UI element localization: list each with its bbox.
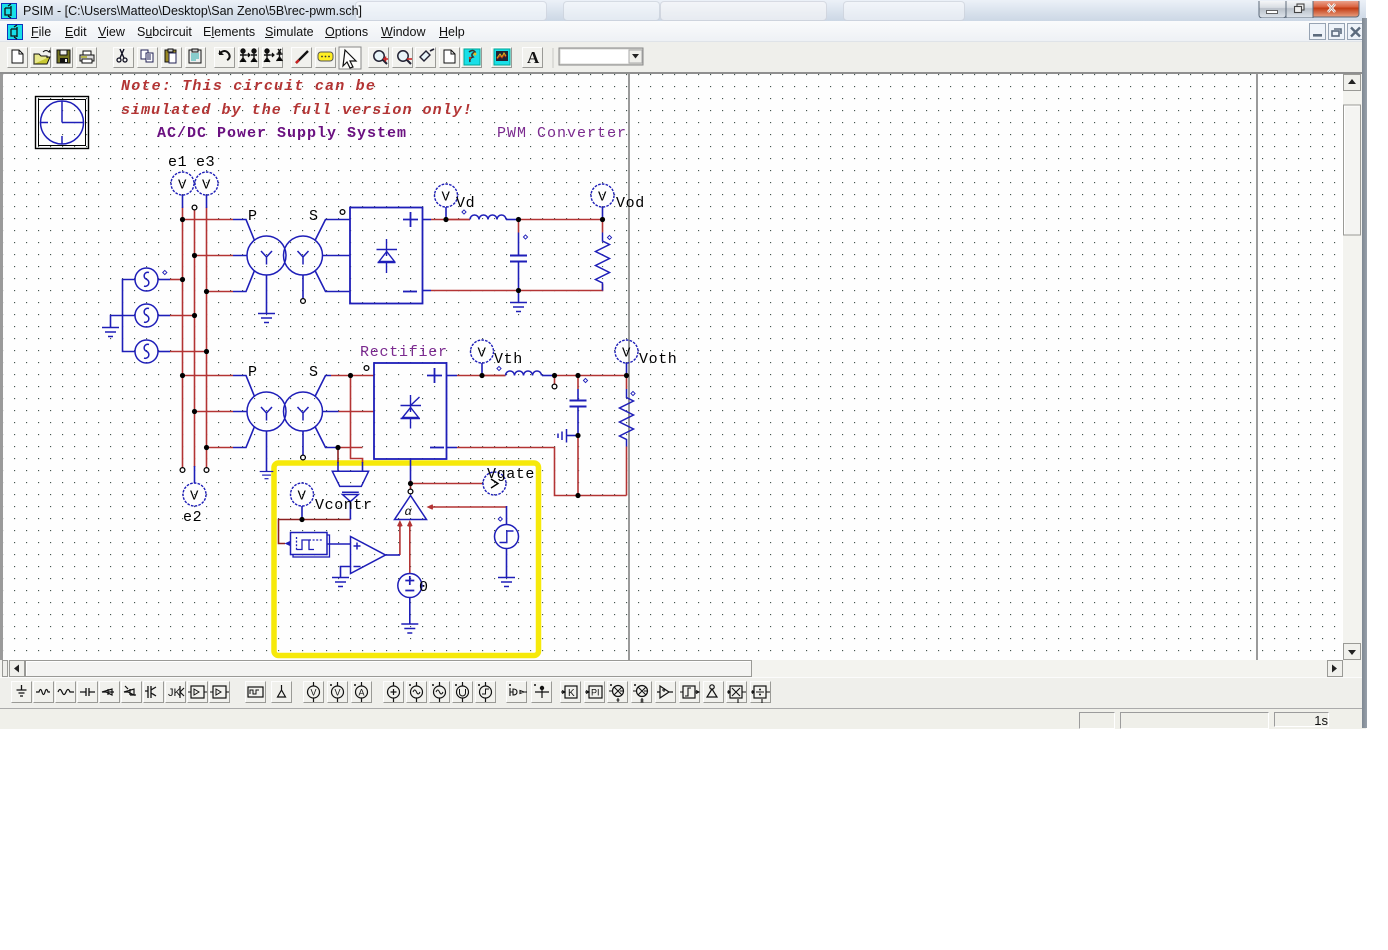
comparator block waveform [297, 537, 323, 551]
svg-text:Vod: Vod [616, 195, 645, 212]
wire Vd inductor out to cap node [506, 219, 519, 221]
open [30, 47, 51, 68]
wire src2 right stub [158, 315, 170, 317]
xfmr1 P input leads [233, 220, 255, 292]
wire rect1 plus to Vd node [431, 219, 470, 221]
wire src1 right stub [158, 279, 170, 281]
wire Vth inductor out to node [555, 375, 627, 377]
BD2 plus mark [427, 368, 442, 383]
ground under C1 [510, 303, 527, 312]
resistor R2 [620, 389, 634, 447]
wire bus A to xfmr1 P top [183, 219, 234, 221]
opamp out lead [386, 554, 401, 556]
ground sawtooth [498, 578, 515, 587]
Vd sensor stub [445, 207, 447, 220]
main toolbar [0, 42, 1362, 72]
wire gate sync drop2 [337, 448, 339, 464]
wire bus A vertical [182, 208, 184, 468]
comparator block shadow [293, 535, 330, 557]
zoom area [415, 47, 436, 68]
rect2 minus stub [447, 447, 458, 449]
wire res2 bottom drop [626, 447, 628, 496]
svg-text:Vd: Vd [456, 195, 475, 212]
sawtooth src riser [506, 506, 508, 525]
svg-text:e3: e3 [196, 154, 215, 171]
Vth sensor stub [481, 363, 483, 376]
wire S2 bot junction to rect2 [338, 447, 363, 449]
vertical scrollbar [1343, 74, 1362, 660]
page boundary line 1 [628, 74, 630, 660]
wire bus C to xfmr2 P bot [207, 447, 234, 449]
wire comparator out riser [399, 524, 401, 555]
thyristor bridge BD2 box [374, 363, 447, 459]
transformer T1 secondary [284, 236, 323, 275]
separator + combo [552, 48, 554, 68]
fit page [439, 47, 460, 68]
wire cap node to Vod node [519, 219, 603, 221]
svg-text:Voth: Voth [639, 351, 677, 368]
select arrow (pressed) [339, 47, 361, 69]
dc src gnd stub [409, 598, 411, 624]
gnd stub under C1 [518, 291, 520, 303]
capacitor C2 [570, 389, 587, 436]
BD2 thyristor symbol [401, 395, 422, 429]
horizontal scrollbar [3, 660, 1343, 677]
sensor Vcontr [291, 483, 314, 506]
text A [522, 47, 543, 68]
window right border [1362, 18, 1367, 728]
wire cap node down stub [518, 220, 520, 233]
rotated ground at C2 out [558, 429, 578, 443]
rect2 plus stub [447, 375, 458, 377]
wire src1 to bus A [170, 279, 183, 281]
print [76, 47, 97, 68]
svg-text:Rectifier: Rectifier [360, 344, 448, 361]
gating funnel riser [349, 501, 351, 520]
svg-text:P: P [248, 364, 258, 381]
menu bar [0, 21, 1362, 42]
polarity diamonds [163, 270, 167, 274]
svg-text:α: α [405, 505, 413, 519]
wire bus C to xfmr1 P bot [207, 291, 234, 293]
Vcontr sensor stub [301, 506, 303, 520]
wire Vcontr rail [279, 520, 351, 544]
wire bus B vertical [194, 210, 196, 467]
run simview2 [262, 47, 283, 68]
cut [113, 47, 134, 68]
sawtooth source [495, 525, 519, 549]
clipboard [185, 47, 206, 68]
xfmr1 S bot stub [302, 275, 304, 299]
caption buttons [1258, 1, 1362, 18]
new [7, 47, 28, 68]
Vgate sensor stub [482, 483, 484, 485]
clock face [41, 101, 84, 144]
wire src3 right stub [158, 351, 170, 353]
source VS3 [135, 340, 158, 363]
inductor L2 out [542, 375, 555, 377]
gate sync blue drops [338, 462, 363, 471]
svg-text:P: P [248, 208, 258, 225]
inductor L2 [506, 371, 542, 376]
dc source V0 [398, 574, 422, 598]
svg-text:Vth: Vth [494, 351, 523, 368]
gating funnel block [332, 471, 368, 501]
alpha input arrow mid [407, 520, 413, 527]
app icon [1, 3, 17, 19]
schematic canvas [3, 74, 1342, 660]
ground opamp minus [332, 578, 349, 587]
copy [137, 47, 158, 68]
block input arrow [285, 541, 291, 547]
svg-text:simulated by the full version: simulated by the full version only! [121, 102, 473, 119]
sensor Vgate (rotated) [483, 472, 506, 495]
wire res2 top stub [626, 376, 628, 390]
wire src gnd branch [111, 316, 123, 328]
ground xfmr2 [260, 472, 274, 479]
wire gate sync drop [351, 376, 363, 464]
xfmr2 P gnd stub [266, 431, 268, 471]
wire rect1 minus rail [431, 284, 603, 291]
save [52, 47, 73, 68]
capacitor C1 [510, 233, 527, 291]
svg-text:Note: This circuit can be: Note: This circuit can be [121, 78, 376, 95]
inductor L1 lead [446, 219, 470, 221]
xfmr1 P gnd stub [266, 275, 268, 313]
wire cap2 bottom to out node [577, 436, 579, 496]
alpha controller U1 [395, 496, 427, 520]
BD1 minus mark [403, 291, 417, 293]
source VS2 [135, 304, 158, 327]
ground dc source [401, 624, 418, 633]
comparator block [291, 533, 328, 555]
wire gate node to Vgate sensor [411, 483, 483, 485]
rect1 plus stub [423, 219, 432, 221]
svg-text:V: V [335, 688, 341, 698]
sensor e3 [195, 172, 218, 195]
svg-text:PWM Converter: PWM Converter [497, 125, 627, 142]
zoom out [392, 47, 413, 68]
BD1 diode symbol [377, 239, 398, 273]
wire bus B to xfmr1 P mid [195, 255, 234, 257]
wire cap2 top stub [577, 376, 579, 390]
clock element frame [36, 97, 89, 149]
element toolbar [0, 677, 1362, 709]
window title bar [0, 0, 1366, 21]
svg-text:e1: e1 [168, 154, 187, 171]
pencil [291, 47, 312, 68]
inductor L1 [470, 215, 506, 220]
resistor R1 [596, 233, 610, 291]
wire sawtooth to alpha [430, 506, 507, 508]
comparator block out wire [327, 543, 351, 545]
svg-text:PI: PI [591, 688, 600, 698]
source VS1 [135, 268, 158, 291]
opamp minus to gnd [341, 567, 351, 578]
svg-text:V: V [311, 688, 317, 698]
paste [161, 47, 182, 68]
sawtooth gnd stub [506, 549, 508, 578]
wire src3 to bus C [170, 351, 207, 353]
xfmr2 S bot stub [302, 431, 304, 455]
page boundary line 2 [1256, 74, 1258, 660]
wire S2 top to rect2 [331, 375, 374, 377]
wire src2 to bus B [170, 315, 195, 317]
svg-text:A: A [527, 48, 540, 67]
transformer T2 primary [247, 392, 286, 431]
wire e2 stub [194, 466, 196, 483]
undo [214, 47, 235, 68]
label [315, 47, 336, 68]
ground src [102, 328, 119, 337]
junction dots [180, 217, 629, 522]
svg-text:S: S [309, 208, 319, 225]
svg-text:0: 0 [419, 579, 429, 596]
sensor Vth [471, 340, 494, 363]
Voth sensor stub [626, 363, 628, 376]
svg-text:A: A [359, 688, 365, 698]
wire e1 stub [182, 195, 184, 208]
wire dc source riser [409, 524, 411, 574]
run PSIM [461, 47, 482, 68]
rect1 minus stub [423, 290, 432, 292]
rectifier bridge BD1 box [350, 208, 423, 304]
opamp comparator [351, 537, 386, 574]
svg-text:S: S [309, 364, 319, 381]
alpha input arrow left [397, 520, 403, 527]
transformer T1 primary [247, 236, 286, 275]
xfmr1 S output leads [315, 220, 350, 292]
wire gate node riser [410, 480, 412, 489]
svg-text:AC/DC Power Supply System: AC/DC Power Supply System [157, 125, 407, 142]
wire node open stub [554, 376, 556, 385]
sensor e2 [183, 483, 206, 506]
wire rect2 plus to Vth node [457, 375, 506, 377]
svg-text:Vgate: Vgate [487, 466, 535, 483]
ground xfmr1 [258, 314, 275, 323]
rect2 gate stub [410, 459, 412, 481]
yellow highlight box [274, 463, 539, 656]
alpha input arrow right [427, 504, 434, 510]
labels [168, 154, 677, 596]
wire src bus left [123, 280, 136, 352]
svg-text:K: K [568, 688, 575, 699]
wire rect2 minus loop [457, 448, 627, 496]
sensor Voth [615, 340, 638, 363]
sensor e1 [171, 172, 194, 195]
wire bus B to xfmr2 P mid [195, 411, 234, 413]
sensor Vod [591, 184, 614, 207]
MDI child buttons [1309, 23, 1365, 41]
transformer T2 secondary [284, 392, 323, 431]
wire bus A to xfmr2 P top [183, 375, 234, 377]
sensor Vd [435, 184, 458, 207]
wire bus C vertical [206, 208, 208, 468]
open node circles [180, 205, 557, 494]
Vth node lead [482, 375, 506, 377]
xfmr2 P input leads [233, 376, 255, 448]
wire e3 stub [206, 195, 208, 208]
svg-text:Vcontr: Vcontr [315, 497, 373, 514]
run simview1 [238, 47, 259, 68]
svg-text:e2: e2 [183, 509, 202, 526]
BD2 minus mark [430, 447, 444, 449]
Vod sensor stub [602, 207, 604, 220]
BD1 plus mark [403, 212, 418, 227]
wire S2 mid to rect2 [339, 411, 375, 413]
xfmr2 S output leads [315, 376, 339, 448]
status bar [0, 708, 1366, 729]
wire Vod node down stub [602, 220, 604, 233]
simview [491, 47, 512, 68]
zoom in [368, 47, 389, 68]
